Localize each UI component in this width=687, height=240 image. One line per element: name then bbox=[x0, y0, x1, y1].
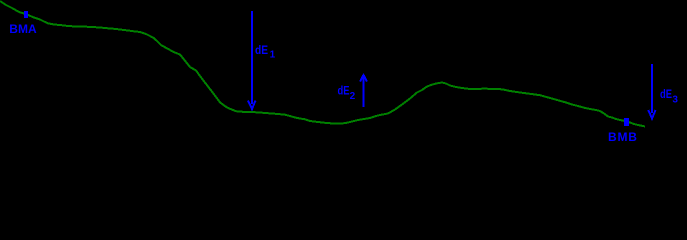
svg-text:dE: dE bbox=[660, 87, 672, 101]
arrow dE2: shaft bbox=[363, 76, 365, 107]
svg-text:3: 3 bbox=[672, 94, 678, 105]
svg-text:dE: dE bbox=[338, 84, 350, 98]
wire: green terrain profile curve bbox=[0, 1, 645, 127]
arrow dE3: arrowhead (down) bbox=[648, 110, 655, 119]
arrow dE1: shaft bbox=[251, 11, 253, 104]
arrow dE2: arrowhead (up) bbox=[360, 75, 367, 82]
svg-text:2: 2 bbox=[350, 91, 356, 102]
arrow dE3: shaft bbox=[651, 64, 653, 113]
node BMB: benchmark marker square bbox=[624, 118, 629, 126]
svg-text:dE: dE bbox=[255, 43, 268, 57]
svg-text:1: 1 bbox=[270, 49, 276, 60]
svg-text:BMB: BMB bbox=[608, 130, 638, 144]
svg-text:BMA: BMA bbox=[9, 22, 37, 36]
node BMA: benchmark marker square bbox=[24, 11, 28, 18]
arrow dE1: arrowhead (down) bbox=[248, 101, 256, 110]
